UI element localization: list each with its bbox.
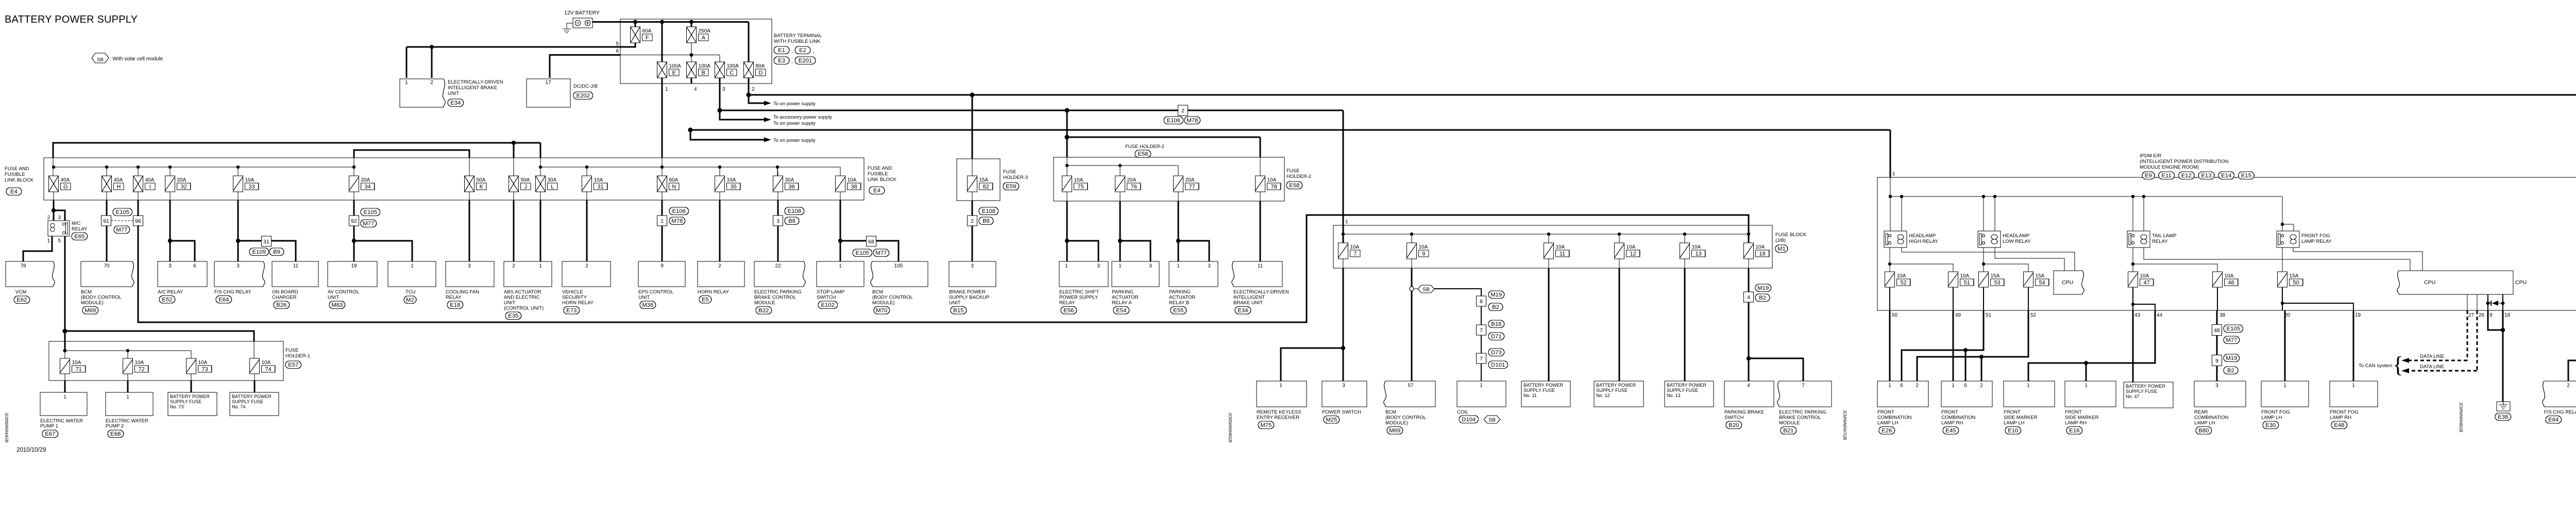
svg-text:1: 1: [839, 263, 842, 269]
svg-text:JCMWA6946GB: JCMWA6946GB: [1228, 412, 1232, 442]
svg-text:PARKING: PARKING: [1112, 289, 1133, 295]
svg-text:M69: M69: [84, 308, 96, 314]
svg-text:LINK BLOCK: LINK BLOCK: [868, 177, 897, 183]
svg-text:E26: E26: [1882, 428, 1892, 434]
svg-text:105: 105: [894, 263, 903, 269]
svg-text:SUPPLY FUSE: SUPPLY FUSE: [232, 399, 263, 404]
svg-text:4: 4: [1747, 294, 1750, 301]
svg-text:53: 53: [1994, 280, 2000, 286]
svg-text:FRONT FOG: FRONT FOG: [2261, 409, 2290, 415]
svg-text:(BODY CONTROL: (BODY CONTROL: [1385, 415, 1426, 421]
svg-text:No. 13: No. 13: [1667, 393, 1681, 398]
svg-text:48: 48: [2214, 327, 2220, 334]
svg-text:10A: 10A: [1692, 244, 1701, 250]
svg-text:B2: B2: [1759, 295, 1766, 301]
svg-text:E106: E106: [1167, 118, 1180, 124]
svg-text:B9: B9: [273, 249, 280, 255]
svg-text:F/S CHG RELAY: F/S CHG RELAY: [2544, 409, 2576, 415]
svg-text:E108: E108: [788, 208, 801, 214]
svg-text:1: 1: [1065, 263, 1068, 269]
svg-text:E11: E11: [2162, 173, 2172, 179]
svg-text:B2: B2: [2227, 368, 2234, 374]
svg-text:,: ,: [2215, 174, 2217, 179]
svg-text:52: 52: [1900, 280, 1906, 286]
svg-text:2: 2: [971, 218, 974, 224]
svg-text:7: 7: [1802, 383, 1805, 389]
svg-text:22: 22: [775, 263, 781, 269]
svg-text:13: 13: [1695, 251, 1701, 257]
svg-text:31: 31: [597, 184, 603, 190]
svg-text:I: I: [149, 184, 151, 190]
svg-text:COOLING FAN: COOLING FAN: [446, 289, 479, 295]
svg-text:100A: 100A: [727, 63, 739, 69]
svg-text:E5: E5: [702, 297, 709, 303]
svg-text:50: 50: [1892, 312, 1898, 318]
svg-text:10A: 10A: [1556, 244, 1565, 250]
svg-text:E4: E4: [873, 188, 880, 194]
svg-text:No. 74: No. 74: [232, 404, 246, 409]
svg-text:ELECTRIC PARKING: ELECTRIC PARKING: [1779, 409, 1826, 415]
svg-text:71: 71: [75, 367, 81, 373]
svg-text:(BODY CONTROL: (BODY CONTROL: [81, 295, 122, 301]
svg-text:RELAY: RELAY: [2152, 239, 2168, 244]
svg-text:,: ,: [2235, 174, 2237, 179]
svg-text:1: 1: [405, 80, 408, 86]
svg-text:78: 78: [1270, 184, 1277, 190]
svg-text:11: 11: [1258, 263, 1263, 269]
svg-text:3: 3: [971, 263, 974, 269]
svg-text:38: 38: [2219, 312, 2226, 318]
svg-text:L: L: [551, 184, 554, 190]
svg-text:E54: E54: [1116, 308, 1126, 314]
svg-text:M70: M70: [876, 308, 887, 314]
svg-text:D101: D101: [1491, 362, 1505, 368]
svg-text:VEHICLE: VEHICLE: [562, 289, 583, 295]
svg-text:HIGH RELAY: HIGH RELAY: [1909, 239, 1939, 244]
svg-text:D: D: [758, 70, 762, 76]
svg-text:INTELLIGENT BRAKE: INTELLIGENT BRAKE: [448, 85, 497, 91]
svg-text:10A: 10A: [1350, 244, 1360, 250]
svg-text:No. 47: No. 47: [2126, 394, 2140, 399]
svg-text:77: 77: [1189, 184, 1195, 190]
svg-text:E65: E65: [74, 234, 84, 240]
svg-text:E64: E64: [2548, 417, 2558, 423]
svg-text:UNIT: UNIT: [448, 91, 459, 96]
svg-text:E35: E35: [508, 313, 518, 319]
svg-text:,: ,: [2156, 174, 2157, 179]
svg-text:78: 78: [20, 263, 26, 269]
svg-text:6: 6: [193, 263, 196, 269]
svg-text:RELAY: RELAY: [446, 295, 462, 301]
svg-text:ELECTRICALLY-DRIVEN: ELECTRICALLY-DRIVEN: [448, 79, 503, 85]
svg-text:2: 2: [752, 87, 755, 92]
svg-text:DC/DC-J/B: DC/DC-J/B: [573, 84, 598, 89]
svg-text:E105: E105: [856, 250, 869, 256]
svg-text:UNIT: UNIT: [638, 295, 650, 301]
svg-text:M/C: M/C: [72, 221, 81, 226]
svg-text:68: 68: [868, 239, 874, 245]
svg-text:E58: E58: [1289, 183, 1299, 189]
svg-text:1: 1: [1888, 383, 1891, 389]
svg-text:BRAKE POWER: BRAKE POWER: [949, 289, 986, 295]
svg-text:SWITCH: SWITCH: [817, 295, 836, 301]
svg-text:51: 51: [1986, 312, 1992, 318]
svg-text:6: 6: [1900, 383, 1903, 389]
svg-text:UNIT: UNIT: [949, 300, 960, 306]
svg-text:LAMP LH: LAMP LH: [2194, 420, 2215, 426]
svg-text:1: 1: [63, 394, 66, 400]
svg-text:SWITCH: SWITCH: [1724, 415, 1744, 421]
svg-text:17: 17: [545, 80, 551, 86]
svg-text:SUPPLY FUSE: SUPPLY FUSE: [1523, 388, 1555, 393]
svg-text:E18: E18: [450, 302, 460, 308]
svg-text:B8: B8: [788, 218, 795, 224]
svg-text:E2: E2: [799, 47, 806, 54]
svg-text:11: 11: [1560, 251, 1565, 257]
svg-text:20A: 20A: [1185, 177, 1195, 183]
svg-text:E108: E108: [982, 208, 995, 214]
svg-text:RELAY: RELAY: [1059, 300, 1075, 306]
svg-text:10A: 10A: [594, 177, 603, 183]
svg-text:10A: 10A: [1897, 273, 1906, 279]
svg-text:FUSIBLE: FUSIBLE: [868, 171, 888, 177]
svg-text:1: 1: [1480, 383, 1483, 389]
svg-text:BATTERY POWER SUPPLY: BATTERY POWER SUPPLY: [5, 14, 138, 25]
svg-text:32: 32: [180, 184, 187, 190]
svg-text:N: N: [672, 184, 676, 190]
svg-text:M75: M75: [1260, 422, 1272, 428]
svg-text:E3: E3: [778, 58, 785, 64]
svg-text:80A: 80A: [756, 63, 765, 69]
svg-text:40A: 40A: [61, 177, 70, 183]
svg-text:SIDE MARKER: SIDE MARKER: [2065, 415, 2099, 421]
svg-text:SECURITY: SECURITY: [562, 295, 587, 301]
svg-text:REMOTE KEYLESS: REMOTE KEYLESS: [1257, 409, 1301, 415]
svg-text:E30: E30: [2265, 422, 2276, 428]
svg-text:ABS ACTUATOR: ABS ACTUATOR: [504, 289, 541, 295]
svg-text:RELAY B: RELAY B: [1169, 300, 1189, 306]
svg-text:10A: 10A: [262, 360, 271, 366]
svg-text:E9: E9: [2145, 173, 2152, 179]
svg-text:4: 4: [694, 87, 697, 92]
svg-text:AV CONTROL: AV CONTROL: [328, 289, 359, 295]
svg-text:B: B: [702, 70, 705, 76]
svg-text:CHARGER: CHARGER: [272, 295, 297, 301]
svg-text:BCM: BCM: [872, 289, 883, 295]
svg-text:19: 19: [2355, 312, 2361, 318]
svg-text:M78: M78: [1187, 118, 1198, 124]
svg-text:E201: E201: [799, 58, 812, 64]
svg-text:2: 2: [1916, 383, 1919, 389]
svg-text:26: 26: [2479, 312, 2485, 318]
svg-text:18: 18: [2504, 312, 2511, 318]
svg-text:2: 2: [2567, 383, 2570, 389]
svg-text:34: 34: [364, 184, 370, 190]
svg-text:FUSE: FUSE: [1003, 169, 1016, 175]
svg-text:DATA LINE: DATA LINE: [2420, 354, 2444, 359]
svg-text:100A: 100A: [669, 63, 682, 69]
svg-text:LAMP RH: LAMP RH: [1941, 420, 1963, 426]
svg-text:POWER SWITCH: POWER SWITCH: [1322, 409, 1361, 415]
svg-text:33: 33: [248, 184, 255, 190]
svg-text:E64: E64: [218, 297, 229, 303]
svg-text:FUSIBLE: FUSIBLE: [5, 172, 25, 177]
svg-text:BATTERY POWER: BATTERY POWER: [170, 394, 210, 399]
svg-text:ENTRY RECEIVER: ENTRY RECEIVER: [1257, 415, 1299, 421]
svg-text:1: 1: [539, 263, 542, 269]
svg-text:82: 82: [982, 184, 989, 190]
svg-text:7: 7: [1480, 327, 1483, 334]
svg-text:FUSE: FUSE: [1286, 168, 1299, 174]
svg-text:10A: 10A: [848, 177, 857, 183]
svg-text:POWER SUPPLY: POWER SUPPLY: [1059, 295, 1098, 301]
svg-text:12: 12: [1630, 251, 1636, 257]
svg-text:MODULE): MODULE): [81, 300, 104, 306]
svg-text:8: 8: [1480, 299, 1483, 305]
svg-text:4: 4: [1747, 383, 1750, 389]
svg-text:60A: 60A: [669, 177, 679, 183]
svg-text:FRONT: FRONT: [1941, 409, 1958, 415]
svg-text:E34: E34: [1238, 308, 1248, 314]
svg-text:ON BOARD: ON BOARD: [272, 289, 298, 295]
svg-text::: :: [1481, 417, 1482, 423]
svg-text:SUPPLY FUSE: SUPPLY FUSE: [170, 399, 201, 404]
svg-text:M69: M69: [1389, 428, 1400, 434]
svg-text:1: 1: [2027, 383, 2030, 389]
svg-text:27: 27: [2468, 312, 2475, 318]
svg-text:3: 3: [1342, 383, 1345, 389]
svg-text:3: 3: [722, 87, 725, 92]
svg-text:LAMP LH: LAMP LH: [1877, 420, 1899, 426]
svg-text:20A: 20A: [177, 177, 187, 183]
svg-text:FRONT: FRONT: [1877, 409, 1894, 415]
svg-text:SUPPLY FUSE: SUPPLY FUSE: [1596, 388, 1628, 393]
svg-text:3: 3: [58, 215, 61, 221]
svg-text:38: 38: [851, 184, 857, 190]
svg-text:2010/10/29: 2010/10/29: [16, 447, 46, 453]
svg-text:C: C: [730, 70, 734, 76]
svg-text:RELAY A: RELAY A: [1112, 300, 1132, 306]
svg-text:M19: M19: [1757, 285, 1769, 291]
svg-text:3: 3: [236, 263, 240, 269]
svg-text:To on power supply: To on power supply: [773, 138, 816, 143]
svg-text:ELECTRIC PARKING: ELECTRIC PARKING: [754, 289, 802, 295]
svg-text:1: 1: [411, 263, 414, 269]
svg-text:40A: 40A: [114, 177, 123, 183]
svg-text:1: 1: [2283, 383, 2286, 389]
svg-text:BATTERY POWER: BATTERY POWER: [232, 394, 272, 399]
svg-text:PARKING: PARKING: [1169, 289, 1191, 295]
svg-text:10A: 10A: [2225, 273, 2234, 279]
svg-text:FRONT FOG: FRONT FOG: [2301, 233, 2330, 239]
svg-text:E105: E105: [2227, 326, 2240, 332]
svg-text:30A: 30A: [548, 177, 557, 183]
svg-text:To on power supply: To on power supply: [773, 121, 816, 126]
svg-text:IPDM E/R: IPDM E/R: [2140, 153, 2161, 159]
svg-text:10A: 10A: [1960, 273, 1970, 279]
svg-text:1: 1: [2352, 383, 2355, 389]
svg-text:10A: 10A: [1756, 244, 1765, 250]
svg-text:5: 5: [616, 41, 619, 47]
svg-text:10A: 10A: [2140, 273, 2149, 279]
svg-text:19: 19: [351, 263, 357, 269]
svg-text:F: F: [646, 35, 649, 41]
svg-text:1: 1: [1279, 383, 1282, 389]
svg-text:CPU: CPU: [2424, 279, 2435, 286]
svg-text:ACTUATOR: ACTUATOR: [1112, 295, 1139, 301]
svg-text:50A: 50A: [521, 177, 530, 183]
svg-text:D71: D71: [1491, 334, 1502, 340]
svg-text:B22: B22: [758, 308, 769, 314]
svg-text:HOLDER-3: HOLDER-3: [1003, 175, 1028, 180]
svg-text:6: 6: [1964, 383, 1967, 389]
svg-text:COIL: COIL: [1457, 409, 1468, 415]
svg-text:TAIL LAMP: TAIL LAMP: [2152, 233, 2177, 239]
svg-text:HORN RELAY: HORN RELAY: [698, 289, 730, 295]
svg-text:SUPPLY FUSE: SUPPLY FUSE: [1667, 388, 1698, 393]
svg-text:M78: M78: [671, 218, 683, 224]
svg-text:10A: 10A: [1626, 244, 1636, 250]
svg-text:E34: E34: [450, 100, 461, 106]
svg-text:20A: 20A: [1127, 177, 1137, 183]
svg-text:43: 43: [2134, 312, 2141, 318]
svg-text:LAMP RELAY: LAMP RELAY: [2301, 239, 2332, 244]
svg-text:51: 51: [1963, 280, 1970, 286]
svg-text:76: 76: [1130, 184, 1137, 190]
svg-text:LAMP LH: LAMP LH: [2261, 415, 2282, 421]
svg-text:73: 73: [201, 367, 208, 373]
svg-text:3: 3: [2215, 383, 2218, 389]
svg-text:FUSE AND: FUSE AND: [5, 166, 29, 172]
svg-text:35: 35: [730, 184, 736, 190]
svg-text:1: 1: [1892, 171, 1895, 177]
svg-text:AND ELECTRIC: AND ELECTRIC: [504, 295, 540, 301]
svg-text:3: 3: [468, 263, 471, 269]
svg-text:2: 2: [1181, 108, 1184, 114]
svg-text:LAMP LH: LAMP LH: [2004, 420, 2025, 426]
svg-text:40A: 40A: [145, 177, 155, 183]
svg-text:46: 46: [2228, 280, 2234, 286]
svg-text:TCU: TCU: [405, 289, 416, 295]
svg-text:E1: E1: [778, 47, 785, 54]
svg-text:1: 1: [1345, 219, 1348, 225]
svg-text:SB: SB: [1422, 286, 1430, 292]
svg-text:(INTELLIGENT POWER DISTRIBUTIO: (INTELLIGENT POWER DISTRIBUTION: [2140, 159, 2229, 164]
svg-text:E56: E56: [1063, 308, 1074, 314]
svg-text:{: {: [2393, 352, 2403, 377]
svg-text:: With solar cell module: : With solar cell module: [110, 56, 163, 62]
svg-text:10A: 10A: [1419, 244, 1428, 250]
svg-text:E52: E52: [162, 297, 172, 303]
svg-text:BATTERY TERMINAL: BATTERY TERMINAL: [774, 33, 822, 39]
svg-text:E102: E102: [821, 302, 835, 308]
svg-text:,: ,: [812, 48, 814, 54]
svg-text:UNIT: UNIT: [328, 295, 339, 301]
svg-text:E67: E67: [45, 431, 55, 437]
svg-text:E68: E68: [110, 431, 121, 437]
svg-text:100A: 100A: [699, 63, 711, 69]
svg-text:BATTERY POWER: BATTERY POWER: [1523, 383, 1564, 388]
svg-text:2: 2: [512, 263, 515, 269]
svg-text:30A: 30A: [785, 177, 794, 183]
svg-text:D104: D104: [1462, 417, 1476, 423]
svg-text:96: 96: [135, 218, 141, 224]
svg-text:91: 91: [103, 218, 109, 224]
svg-text:UNIT: UNIT: [504, 300, 515, 306]
svg-text:3: 3: [1097, 263, 1100, 269]
svg-text:92: 92: [351, 218, 357, 224]
svg-text:A/C RELAY: A/C RELAY: [158, 289, 183, 295]
svg-text:E4: E4: [10, 189, 18, 195]
svg-text:20A: 20A: [361, 177, 370, 183]
svg-text:E10: E10: [2008, 428, 2018, 434]
svg-text:No. 12: No. 12: [1596, 393, 1610, 398]
svg-text:11: 11: [293, 263, 299, 269]
svg-text:M1: M1: [1777, 246, 1786, 252]
svg-text:HORN RELAY: HORN RELAY: [562, 300, 594, 306]
svg-text:M77: M77: [2226, 337, 2237, 343]
svg-text:ACTUATOR: ACTUATOR: [1169, 295, 1196, 301]
svg-text:E55: E55: [1173, 308, 1183, 314]
svg-text:10A: 10A: [72, 360, 81, 366]
svg-text:2: 2: [430, 80, 433, 86]
svg-text:E73: E73: [566, 308, 577, 314]
svg-text:72: 72: [138, 367, 144, 373]
svg-text:M19: M19: [2226, 355, 2237, 361]
svg-text:9: 9: [2215, 358, 2218, 364]
svg-text:FUSE HOLDER-2: FUSE HOLDER-2: [1125, 144, 1164, 150]
svg-text:E13: E13: [2201, 173, 2211, 179]
svg-text:No. 11: No. 11: [1523, 393, 1537, 398]
svg-text:To accessory power supply: To accessory power supply: [773, 114, 832, 120]
svg-text:E48: E48: [2334, 422, 2344, 428]
svg-text:REAR: REAR: [2194, 409, 2208, 415]
svg-text:BATTERY POWER: BATTERY POWER: [1667, 383, 1707, 388]
svg-text:COMBINATION: COMBINATION: [1877, 415, 1911, 421]
svg-text:A: A: [702, 35, 706, 41]
svg-text:B26: B26: [276, 302, 286, 308]
svg-text:3: 3: [1208, 263, 1211, 269]
svg-text:10A: 10A: [245, 177, 255, 183]
svg-text:ELECTRICALLY-DRIVEN: ELECTRICALLY-DRIVEN: [1233, 289, 1289, 295]
svg-text:2: 2: [1980, 383, 1983, 389]
svg-text:15A: 15A: [2290, 273, 2299, 279]
svg-text:SIDE MARKER: SIDE MARKER: [2004, 415, 2038, 421]
svg-text:G: G: [63, 184, 68, 190]
svg-text:36: 36: [788, 184, 794, 190]
svg-text:ELECTRIC SHIFT: ELECTRIC SHIFT: [1059, 289, 1099, 295]
svg-text:HEADLAMP: HEADLAMP: [2003, 233, 2029, 239]
svg-text:E105: E105: [116, 209, 129, 216]
svg-text:1: 1: [665, 87, 668, 92]
svg-text:WITH FUSIBLE LINK: WITH FUSIBLE LINK: [774, 39, 821, 44]
svg-text:D73: D73: [1491, 350, 1502, 356]
svg-text:HOLDER-1: HOLDER-1: [285, 353, 310, 359]
svg-text:CPU: CPU: [2062, 279, 2073, 286]
svg-text:1: 1: [47, 238, 50, 244]
svg-text:E38: E38: [2498, 414, 2508, 420]
svg-text:MODULE): MODULE): [1385, 420, 1408, 426]
svg-text:74: 74: [265, 367, 271, 373]
svg-text:MODULE): MODULE): [872, 300, 895, 306]
svg-text:44: 44: [2157, 312, 2163, 318]
svg-text:MODULE ENGINE ROOM): MODULE ENGINE ROOM): [2140, 164, 2199, 170]
svg-text:BCM: BCM: [81, 289, 92, 295]
svg-text:52: 52: [2030, 312, 2037, 318]
svg-text:To on power supply: To on power supply: [773, 101, 816, 107]
svg-text:3: 3: [168, 263, 172, 269]
svg-text:JCMWA6948GB: JCMWA6948GB: [2459, 402, 2463, 432]
